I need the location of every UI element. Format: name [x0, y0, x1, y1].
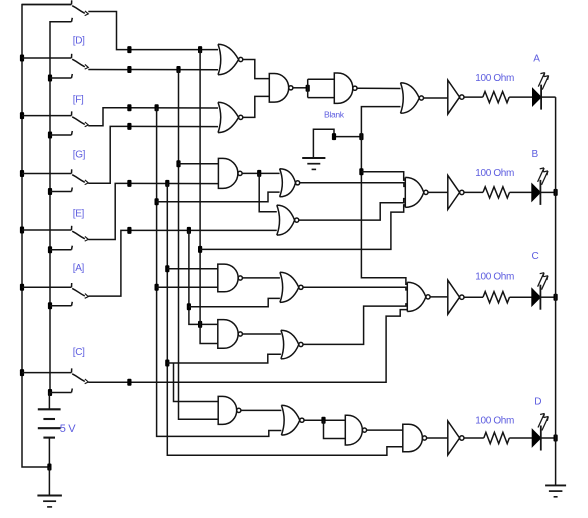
- wire branch to G14 in2 and G16 in1: [167, 354, 281, 363]
- svg-text:[D]: [D]: [73, 36, 85, 47]
- nor-gate G2b: [218, 102, 243, 132]
- wire C-NOR out to buffer C: [430, 296, 448, 298]
- label Blank: [324, 110, 345, 120]
- svg-text:[A]: [A]: [73, 263, 85, 274]
- svg-text:[E]: [E]: [73, 209, 85, 220]
- wire resistor to LED B: [510, 191, 532, 193]
- wire G2 out: [293, 87, 308, 89]
- wire G2b out to G2 in2: [243, 96, 269, 117]
- svg-text:100 Ohm: 100 Ohm: [475, 272, 514, 283]
- junction: [176, 160, 180, 167]
- wire [E] out to G5 in2: [88, 183, 218, 239]
- junction on G13 in1 wire: [198, 321, 202, 328]
- wire G4 out to buffer A: [424, 97, 448, 99]
- wire resistor to LED A: [509, 96, 532, 98]
- label 100 Ohm C: [475, 272, 514, 283]
- resistor R-B 100 Ohm: [483, 187, 510, 198]
- svg-text:5 V: 5 V: [60, 423, 76, 435]
- label [G]: [73, 150, 86, 161]
- svg-text:[C]: [C]: [73, 347, 85, 358]
- junction right bus row D: [554, 435, 558, 442]
- label 100 Ohm D: [475, 416, 514, 427]
- svg-text:100 Ohm: 100 Ohm: [475, 168, 514, 179]
- junction below battery: [47, 464, 51, 471]
- label 100 Ohm A: [475, 73, 514, 84]
- wire G18 tied input loop: [324, 420, 346, 438]
- stub contact from bus2: [50, 302, 72, 306]
- switch [C]: [22, 368, 88, 383]
- wire branch to G6 in2: [157, 192, 280, 202]
- junction: [127, 46, 131, 53]
- wire G9 out to G10 in1: [242, 277, 280, 279]
- junction on bus2: [48, 188, 52, 195]
- wire [F] out to G2b in1: [88, 108, 218, 126]
- junction: [198, 246, 202, 253]
- label [D]: [73, 36, 85, 47]
- stub contact from bus2: [50, 246, 72, 250]
- svg-text:100 Ohm: 100 Ohm: [475, 73, 514, 84]
- resistor R-C 100 Ohm: [483, 292, 510, 303]
- wire B-NOR out to buffer B: [428, 191, 448, 193]
- label [E]: [73, 209, 85, 220]
- wire G3 out to G4 in1: [357, 87, 400, 89]
- wire bus1 (ground bus, left vertical): [22, 5, 72, 468]
- wire [D] out to G1 in2: [88, 69, 218, 71]
- junction: [257, 170, 261, 177]
- LED A: [533, 73, 549, 110]
- nor-gate C (4-input): [407, 282, 430, 311]
- junction at G3 input: [306, 85, 310, 92]
- stub contact from bus2: [50, 131, 72, 135]
- wire G10 out to C-NOR in2: [303, 287, 407, 290]
- contact tick bus2 top stub: [71, 18, 74, 22]
- nor-gate G10: [280, 272, 303, 302]
- switch [A]: [22, 283, 88, 298]
- wire G16 out to G17 in1: [241, 409, 281, 411]
- label D: [534, 397, 541, 408]
- wire G7 out to B-NOR in3: [299, 199, 405, 221]
- junction: [127, 104, 131, 111]
- junction: [155, 198, 159, 205]
- label 5 V: [60, 423, 76, 435]
- wire right bus: [555, 97, 557, 485]
- wire G5 out to G6 in1: [242, 172, 279, 174]
- wire LED C to right bus: [541, 296, 556, 298]
- label C: [532, 251, 539, 262]
- junction: [127, 180, 131, 187]
- junction: [127, 227, 131, 234]
- LED D: [532, 414, 548, 451]
- wire resistor to LED C: [510, 296, 532, 298]
- junction on bus1: [20, 369, 24, 376]
- buffer U-A: [448, 80, 464, 114]
- junction on bus1: [20, 227, 24, 234]
- buffer U-D: [448, 421, 464, 455]
- wire G14 out to C-NOR in3: [303, 304, 407, 345]
- nand-gate G3 with tied inputs: [308, 73, 357, 103]
- wire buffer C to resistor: [464, 296, 483, 298]
- wire G13 out to G14 in1: [242, 333, 281, 335]
- wire LED A to right bus: [541, 96, 555, 98]
- label A: [533, 54, 540, 65]
- junction: [165, 360, 169, 367]
- junction: [127, 379, 131, 386]
- wire buffer D to resistor: [464, 437, 483, 439]
- svg-text:Blank: Blank: [324, 110, 345, 120]
- wire V4 [A]-tap vertical to G13 in1: [189, 230, 218, 324]
- label [C]: [73, 347, 85, 358]
- junction on bus1: [20, 112, 24, 119]
- junction: [359, 168, 363, 175]
- junction: [187, 227, 191, 234]
- nand-gate G16: [218, 396, 241, 424]
- nand-gate G9: [218, 264, 243, 292]
- stub contact from bus2: [50, 389, 72, 393]
- nand-gate G2: [269, 74, 293, 103]
- svg-text:100 Ohm: 100 Ohm: [475, 416, 514, 427]
- junction on bus1: [20, 55, 24, 62]
- junction: [155, 284, 159, 291]
- ground GND3 bottom-right: [545, 485, 566, 496]
- wire G17 out to G18: [304, 419, 345, 421]
- nor-gate G14: [281, 330, 303, 359]
- nor-gate G6: [280, 169, 300, 197]
- wire LED B to right bus: [541, 191, 556, 193]
- junction on bus2: [48, 75, 52, 82]
- wire branch to G9 in1: [167, 268, 218, 270]
- wire J1 out to G1 in1: [88, 12, 218, 50]
- buffer U-B: [448, 175, 464, 209]
- nand-gate G5: [218, 158, 242, 188]
- junction: [176, 66, 180, 73]
- junction right bus row C: [554, 294, 558, 301]
- battery V1 5V: [38, 393, 61, 468]
- stub contact from bus2: [50, 188, 72, 192]
- switch [F]: [22, 111, 88, 126]
- wire branch to B-NOR in1: [361, 172, 405, 180]
- junction at G18 input: [321, 417, 325, 424]
- nor-gate G17: [281, 405, 304, 435]
- wire bus2 (+5V bus, second vertical): [50, 22, 72, 393]
- LED C: [532, 273, 548, 310]
- junction: [127, 66, 131, 73]
- nor-gate G7: [277, 205, 299, 235]
- wire buffer B to resistor: [464, 191, 483, 193]
- switch [G]: [22, 169, 88, 184]
- wire G6 out to B-NOR in2: [300, 183, 406, 187]
- nor-gate B (4-input): [405, 177, 428, 207]
- wire [A] out to G7 in2: [88, 230, 276, 296]
- buffer U-C: [448, 280, 464, 314]
- junction: [165, 265, 169, 272]
- wire tee down to G16 in1: [174, 363, 219, 402]
- wire [G] out to G2b in2: [88, 126, 218, 183]
- nand-gate G13: [218, 320, 243, 349]
- label [A]: [73, 263, 85, 274]
- resistor R-D 100 Ohm: [484, 432, 510, 443]
- junction on bus2: [48, 246, 52, 253]
- junction on bus2: [48, 132, 52, 139]
- nor-gate G1: [218, 44, 243, 75]
- label 100 Ohm B: [475, 168, 514, 179]
- junction on bus2: [48, 389, 52, 396]
- junction node Blank: [332, 133, 336, 140]
- wire buffer A to resistor: [464, 96, 483, 98]
- nor-gate G4: [401, 83, 424, 114]
- wire branch to B-NOR in4: [200, 205, 405, 250]
- junction: [155, 104, 159, 111]
- wire resistor to LED D: [509, 437, 532, 439]
- wire Blank ground to node: [313, 129, 361, 158]
- junction: [359, 133, 363, 140]
- wire G18 out to G19 in1: [367, 429, 403, 431]
- svg-text:D: D: [534, 397, 541, 408]
- resistor R-A 100 Ohm: [483, 92, 509, 103]
- svg-text:C: C: [532, 251, 539, 262]
- wire LED D to right bus: [541, 437, 556, 439]
- svg-text:A: A: [533, 54, 540, 65]
- junction: [187, 303, 191, 310]
- label [F]: [73, 94, 84, 105]
- wire V2 [E]-tap vertical to G19 in2: [167, 183, 402, 455]
- junction right bus row B: [554, 189, 558, 196]
- nand-gate G19: [403, 424, 427, 451]
- wire branch down to G7 in1: [259, 173, 277, 211]
- wire branch to G5 in1: [179, 163, 219, 165]
- ground GND1 bottom-left: [37, 496, 62, 507]
- stub contact from bus2: [50, 74, 72, 78]
- wire Blank vertical to G4 in2 / C-NOR in1: [361, 107, 407, 285]
- svg-text:[F]: [F]: [73, 94, 84, 105]
- switch [D]: [22, 54, 88, 69]
- wire V3 [D]-tap vertical to G16 in2: [179, 70, 219, 420]
- LED B: [532, 168, 548, 205]
- junction: [127, 123, 131, 130]
- wire G1 out to G2 in1: [243, 60, 269, 79]
- svg-text:[G]: [G]: [73, 150, 86, 161]
- wire to ground: [48, 467, 50, 496]
- junction: [165, 180, 169, 187]
- nand-gate G18: [345, 415, 366, 445]
- wire V5 J1-tap vertical to G13 in2: [200, 50, 218, 344]
- switch [E]: [22, 226, 88, 241]
- ground GND2 Blank net: [302, 158, 325, 169]
- wire V1 [F]-tap vertical to G17 in2: [157, 108, 282, 437]
- junction on bus2: [48, 302, 52, 309]
- label B: [532, 149, 539, 160]
- switch J1: [22, 0, 88, 15]
- wire [C] out to C-NOR in4: [88, 310, 407, 383]
- svg-text:B: B: [532, 149, 539, 160]
- wire branch to G9 in2: [157, 286, 218, 288]
- wire G19 out to buffer D: [427, 437, 448, 439]
- wire branch to G10 in2: [189, 298, 280, 306]
- junction: [198, 46, 202, 53]
- junction on bus1: [20, 170, 24, 177]
- junction on bus1: [20, 284, 24, 291]
